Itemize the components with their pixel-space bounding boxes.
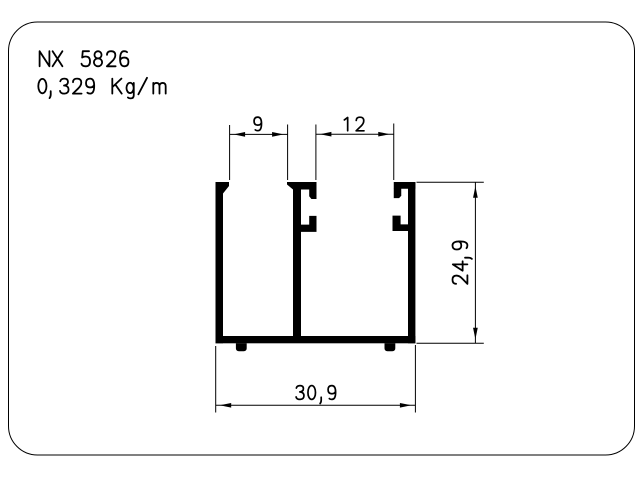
title text 5826: [81, 51, 128, 66]
title text Kg/m: [112, 78, 165, 99]
dim 12: right extension line: [393, 124, 395, 181]
dim 9: dimension line: [230, 133, 288, 135]
profile bottom bar: [216, 336, 416, 343]
title text NX: [40, 51, 63, 66]
dim text 9: [254, 117, 261, 131]
dim 24,9: dimension line: [474, 182, 476, 343]
profile left wall with top lip: [216, 182, 230, 343]
dim 24,9: top arrow: [473, 186, 478, 198]
dim 30,9: dimension line: [216, 404, 416, 406]
dim 12: dimension line: [316, 133, 394, 135]
profile right wall hanging tab: [394, 189, 402, 199]
profile middle T-wall stem: [293, 186, 301, 338]
profile right wall top bar: [394, 182, 416, 189]
dim 12: left arrow: [320, 132, 332, 137]
dim 30,9: left extension line: [215, 346, 217, 413]
profile right wall lower hook: [393, 216, 409, 231]
profile middle wall lower hook: [301, 216, 317, 232]
profile right screw foot: [385, 343, 396, 351]
dim text 24,9 (rotated): [453, 241, 472, 284]
dim 30,9: right extension line: [414, 345, 416, 413]
dim 9: right extension line: [287, 125, 289, 181]
dim 30,9: left arrow: [220, 403, 232, 408]
title text 0,329: [38, 79, 94, 99]
profile left screw foot: [236, 343, 247, 351]
dim text 12: [344, 117, 364, 131]
dim 24,9: bottom extension line: [417, 342, 484, 344]
dim 9: left arrow: [234, 132, 246, 137]
profile middle wall hanging tab: [309, 189, 316, 199]
dim 30,9: right arrow: [400, 403, 412, 408]
dim 9: left extension line: [229, 125, 231, 180]
dim 24,9: bottom arrow: [473, 328, 478, 340]
dim 12: right arrow: [378, 132, 390, 137]
profile right wall stem: [408, 182, 415, 343]
dim 9: right arrow: [272, 132, 284, 137]
profile middle wall top bar: [287, 182, 317, 190]
dim 24,9: top extension line: [417, 181, 484, 183]
dim 12: left extension line: [315, 125, 317, 181]
dim text 30,9: [296, 386, 336, 404]
